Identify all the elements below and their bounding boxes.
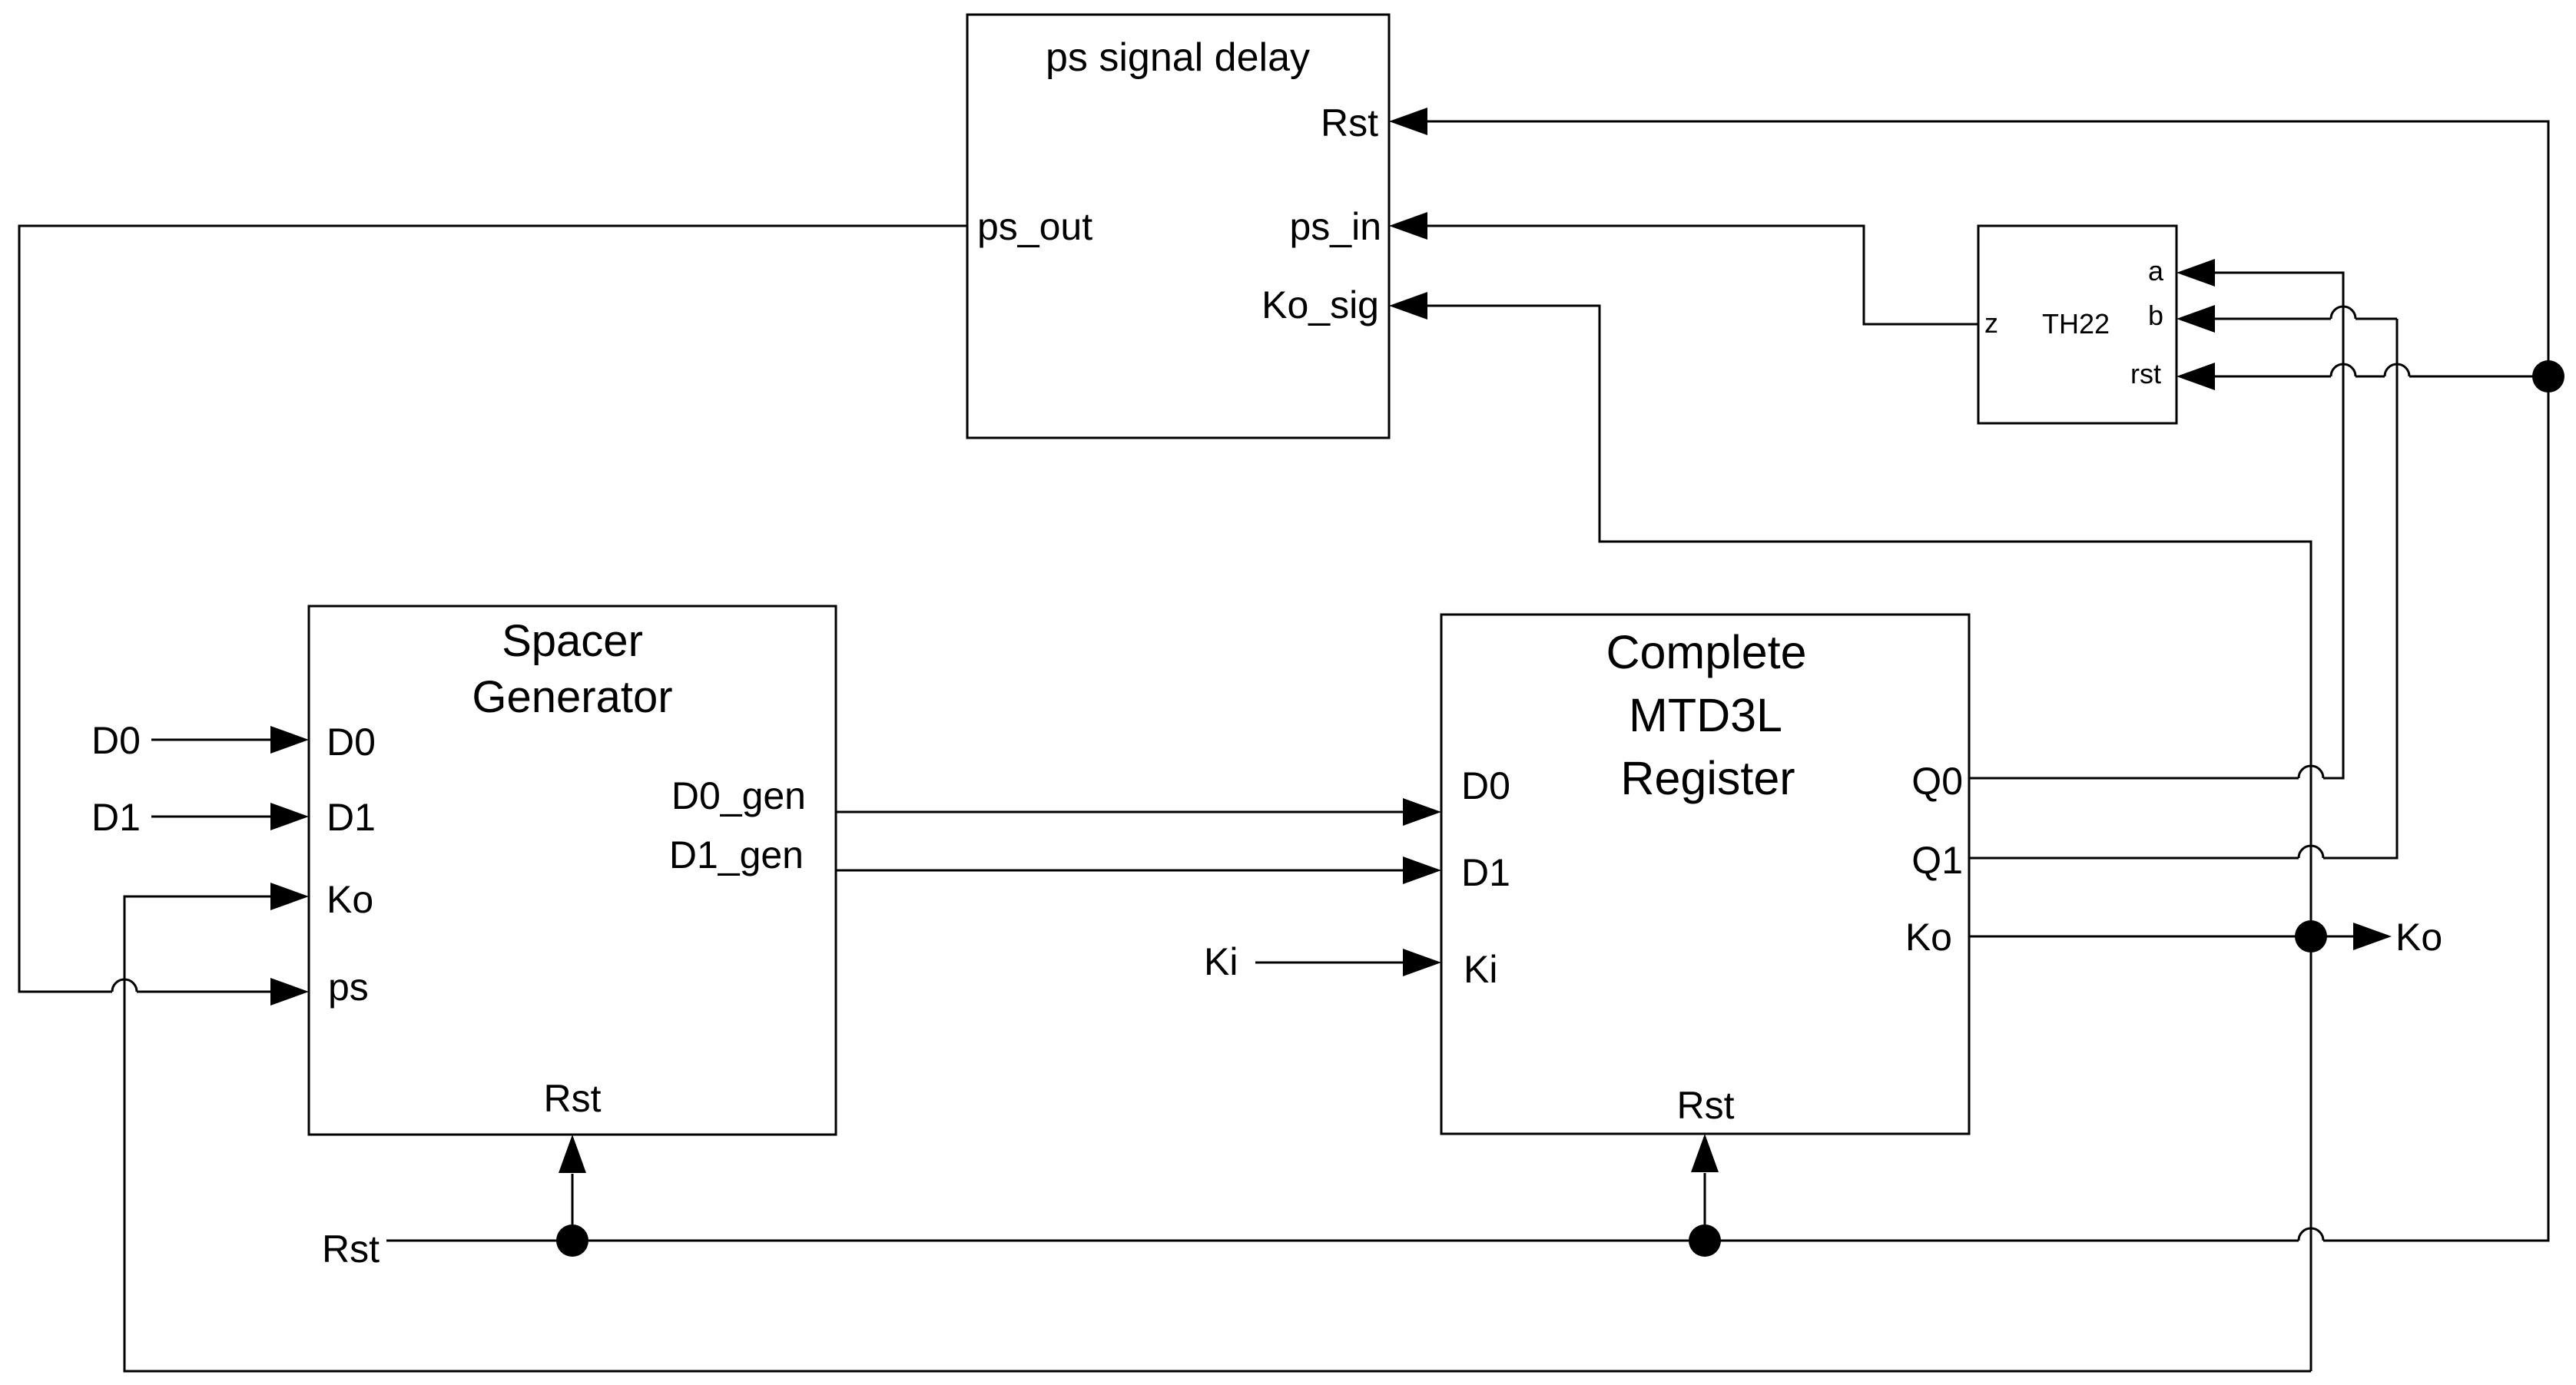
svg-text:rst: rst — [2130, 358, 2161, 389]
hop: Q0 wire over Ko vertical at x=3008 — [2299, 766, 2323, 778]
svg-text:Ko: Ko — [2395, 916, 2442, 959]
svg-text:ps: ps — [328, 966, 369, 1009]
svg-text:D1: D1 — [91, 796, 141, 839]
wire Ko output stub — [1969, 936, 2311, 938]
wire Q1 net from MTD3L — [1969, 857, 2299, 860]
junction dot on Rst net at TH22 rst tap — [2532, 360, 2564, 393]
wire b segment from TH22 — [2215, 318, 2331, 320]
svg-text:Ki: Ki — [1464, 948, 1497, 991]
svg-text:Ki: Ki — [1204, 940, 1238, 983]
wire ps_in net from U1 to TH22 z — [1427, 226, 1978, 324]
hop: b wire over vertical x=3050 — [2331, 306, 2356, 319]
svg-text:Ko_sig: Ko_sig — [1261, 283, 1379, 326]
arrowhead into U1 ps_in — [1389, 212, 1427, 240]
arrowhead Ko external output — [2353, 923, 2392, 950]
svg-text:D1: D1 — [1461, 851, 1510, 894]
svg-text:D1: D1 — [327, 796, 376, 839]
wire ps_out net: U1.ps_out left, down, to Spacer ps input — [19, 226, 967, 992]
arrowhead into TH22 rst — [2177, 363, 2215, 390]
arrowhead into MTD3L D1 — [1403, 857, 1441, 884]
svg-text:D1_gen: D1_gen — [669, 833, 804, 876]
arrowhead into Spacer Ko — [270, 883, 309, 910]
hop: Q1 wire over Ko vertical at x=3008 — [2299, 846, 2323, 858]
hop: rst wire over vertical x=3120 — [2385, 364, 2409, 376]
svg-text:Rst: Rst — [544, 1077, 602, 1120]
hop: ps wire over Ko vertical at x=162 — [112, 979, 137, 992]
arrowhead into U1 Rst — [1389, 108, 1427, 135]
svg-text:z: z — [1984, 307, 1998, 339]
svg-text:Rst: Rst — [1321, 101, 1378, 144]
block U3: Spacer Generator — [309, 606, 836, 1135]
svg-text:Q1: Q1 — [1911, 839, 1963, 882]
arrowhead up into Spacer Rst — [559, 1135, 586, 1173]
wire Rst net right segment and up right side — [1427, 121, 2548, 1241]
wire external Ki input — [1255, 962, 1403, 964]
wire D0_gen from Spacer to MTD3L D0 — [836, 811, 1403, 813]
svg-text:Q0: Q0 — [1911, 760, 1963, 803]
svg-text:D0: D0 — [91, 719, 141, 762]
wire Ko_sig net from U1 down and right — [1427, 306, 2311, 936]
wire external D0 input — [151, 739, 273, 741]
wire Rst branch up to Spacer Rst pin — [572, 1174, 574, 1241]
arrowhead into U1 Ko_sig — [1389, 292, 1427, 320]
wire rst right segment to junction — [2409, 376, 2548, 378]
svg-text:ps signal delay: ps signal delay — [1046, 35, 1310, 80]
svg-text:ps_out: ps_out — [977, 205, 1092, 248]
junction dot on Rst net at MTD3L branch — [1689, 1224, 1721, 1257]
wire Ko feedback into Spacer Ko input — [124, 896, 2311, 1371]
hop: Rst wire over Ko vertical at x=3008 — [2299, 1228, 2323, 1241]
wire Rst bottom distribution net — [386, 1240, 2299, 1242]
arrowhead into Spacer ps — [270, 978, 309, 1006]
svg-text:D0_gen: D0_gen — [671, 774, 806, 817]
svg-text:Ko: Ko — [327, 878, 373, 921]
block U2: TH22 gate — [1978, 226, 2177, 423]
arrowhead into TH22 a — [2177, 259, 2215, 287]
junction dot on Rst net at Spacer branch — [556, 1224, 588, 1257]
wire Rst branch up to MTD3L Rst pin — [1704, 1173, 1706, 1241]
svg-text:ps_in: ps_in — [1289, 205, 1381, 248]
wire ps into Spacer — [137, 991, 273, 993]
svg-text:TH22: TH22 — [2042, 308, 2110, 340]
wire TH22 rst input from Rst net — [2215, 376, 2331, 378]
arrowhead into Spacer D1 — [270, 803, 309, 830]
junction dot on Ko net — [2295, 920, 2327, 953]
arrowhead into MTD3L Ki — [1403, 949, 1441, 976]
arrowhead up into MTD3L Rst — [1691, 1134, 1719, 1172]
wire rst middle segment — [2356, 376, 2385, 378]
svg-text:D0: D0 — [327, 721, 376, 764]
svg-text:Ko: Ko — [1905, 916, 1952, 959]
svg-text:Register: Register — [1620, 752, 1795, 804]
arrowhead into MTD3L D0 — [1403, 798, 1441, 826]
wire D1_gen from Spacer to MTD3L D1 — [836, 870, 1403, 872]
wire Ko vertical below junction — [2310, 936, 2312, 1371]
svg-text:D0: D0 — [1461, 764, 1510, 807]
svg-text:Rst: Rst — [322, 1228, 380, 1271]
wire Q0 to TH22 a — [2215, 273, 2343, 778]
svg-text:Rst: Rst — [1677, 1084, 1735, 1127]
arrowhead into TH22 b — [2177, 305, 2215, 333]
wire external D1 input — [151, 816, 273, 818]
svg-text:b: b — [2148, 300, 2163, 331]
block U1: ps signal delay — [967, 15, 1389, 438]
wire Q1 right segment and up — [2323, 319, 2397, 858]
wire Q0 net from MTD3L — [1969, 777, 2299, 780]
svg-text:MTD3L: MTD3L — [1629, 689, 1782, 741]
svg-text:Spacer: Spacer — [502, 616, 643, 666]
block U4: Complete MTD3L Register — [1441, 615, 1969, 1134]
hop: rst wire over vertical x=3050 — [2331, 364, 2356, 376]
svg-text:a: a — [2148, 255, 2164, 287]
arrowhead into Spacer D0 — [270, 726, 309, 754]
svg-text:Generator: Generator — [472, 672, 672, 722]
wire Ko output arrow stub — [2311, 936, 2355, 938]
wire b right segment — [2356, 318, 2397, 320]
svg-text:Complete: Complete — [1606, 626, 1806, 678]
